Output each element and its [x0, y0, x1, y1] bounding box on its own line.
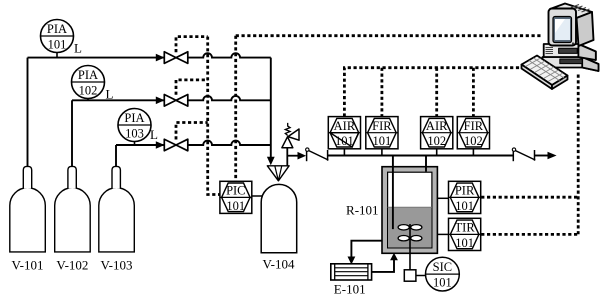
signal bus 1 vertical to PIC-101 left: [208, 37, 220, 195]
wire E-101 back to reactor: [372, 259, 394, 272]
AIR-102 stem down: [436, 149, 438, 156]
stirrer motor box: [404, 270, 416, 281]
svg-text:101: 101: [335, 134, 354, 148]
FIR-102 signal stem: [472, 68, 475, 117]
wire reactor to PIR-101: [437, 197, 448, 199]
signal dashed loop over valve 1: [176, 37, 208, 53]
wire relief stub: [286, 148, 288, 166]
wire riser V-103: [115, 145, 117, 166]
valve 3: [164, 139, 188, 151]
computer case: [544, 44, 596, 60]
svg-text:PIR: PIR: [455, 184, 475, 198]
instrument PIA-101: [41, 20, 74, 58]
reactor liquid: [388, 207, 431, 247]
relief valve PSV: [282, 123, 299, 148]
feed arrow into funnel: [267, 157, 275, 166]
wire line 1 from V-101: [28, 53, 271, 57]
gas cylinder V-102: [55, 188, 90, 252]
wire riser V-102: [71, 100, 73, 166]
svg-text:AIR: AIR: [426, 119, 448, 133]
svg-text:TIR: TIR: [455, 221, 476, 235]
AIR-102 signal stem: [435, 68, 438, 117]
gas cylinder V-101: [10, 188, 46, 252]
top signal bus to computer: [236, 34, 543, 37]
svg-text:PIA: PIA: [78, 68, 98, 82]
monitor right face: [577, 12, 594, 46]
analyzer signal bus to keyboard: [344, 68, 522, 117]
svg-text:L: L: [74, 41, 82, 56]
TIR-101 output signal: [481, 233, 578, 236]
instrument PIC-101: [220, 181, 252, 213]
stirrer shaft: [409, 224, 411, 271]
FIR-101 signal stem: [380, 68, 383, 117]
svg-text:V-102: V-102: [56, 258, 88, 273]
instrument PIA-102: [72, 66, 105, 101]
PIR-101 output signal: [481, 196, 578, 199]
FIR-102 stem down: [472, 149, 474, 156]
FIR-101 stem down: [381, 149, 383, 156]
keyboard: [522, 56, 568, 86]
svg-text:101: 101: [226, 199, 245, 213]
monitor top face: [550, 4, 592, 19]
switch 2 (vent): [512, 148, 556, 161]
instrument AIR-101: [328, 117, 360, 149]
wire riser V-101: [27, 58, 29, 167]
svg-text:FIR: FIR: [464, 119, 484, 133]
wire headspace feed into reactor: [425, 156, 427, 172]
instrument PIR-101: [449, 181, 481, 213]
wire motor to SIC-101: [416, 275, 426, 277]
wire joiner down to V-104 funnel: [270, 58, 272, 159]
switch 1 (sample point): [306, 148, 329, 161]
instrument SIC-101: [426, 257, 460, 291]
wire vent branch: [287, 155, 298, 157]
svg-text:102: 102: [79, 84, 98, 98]
instrument TIR-101: [449, 218, 481, 250]
signal dashed loop over valve 2: [176, 80, 208, 95]
svg-text:PIA: PIA: [47, 22, 67, 36]
monitor screen: [553, 17, 572, 43]
svg-text:101: 101: [433, 276, 452, 290]
svg-text:101: 101: [48, 38, 67, 52]
instrument FIR-101: [366, 117, 398, 149]
svg-text:101: 101: [455, 236, 474, 250]
svg-text:V-101: V-101: [11, 258, 43, 273]
svg-text:AIR: AIR: [334, 119, 356, 133]
svg-text:101: 101: [373, 134, 392, 148]
arrow into reactor bottom: [390, 253, 398, 260]
svg-text:L: L: [150, 127, 158, 142]
flow arrow line 1: [156, 54, 165, 62]
right signal riser from computer: [577, 75, 580, 235]
stirrer impeller upper: [398, 225, 409, 230]
instrument FIR-102: [457, 117, 489, 149]
arrow vent branch: [298, 152, 307, 160]
svg-text:FIR: FIR: [372, 119, 392, 133]
svg-text:103: 103: [125, 127, 144, 141]
arrow into E-101: [348, 257, 356, 265]
instrument AIR-102: [421, 117, 453, 149]
svg-text:SIC: SIC: [433, 260, 452, 274]
signal dashed loop over valve 3: [176, 123, 208, 140]
svg-text:PIC: PIC: [226, 184, 245, 198]
stirrer impeller lower: [398, 236, 409, 241]
reactor R-101 inner vessel: [388, 172, 432, 248]
svg-text:L: L: [106, 87, 114, 102]
instrument PIA-103: [118, 109, 151, 146]
monitor front face: [549, 9, 577, 46]
flow arrow line 3: [156, 141, 165, 149]
svg-text:102: 102: [464, 134, 483, 148]
wire analyzer header: [328, 155, 514, 157]
wire line 2 from V-102: [72, 96, 271, 100]
wire PIC-101 to V-104: [252, 195, 264, 197]
gas cylinder V-103: [99, 188, 135, 252]
wire line 3 from V-103: [116, 141, 271, 145]
svg-text:102: 102: [427, 134, 446, 148]
svg-text:V-103: V-103: [100, 258, 132, 273]
AIR-101 stem down: [343, 149, 345, 156]
svg-text:V-104: V-104: [262, 257, 295, 272]
svg-text:PIA: PIA: [124, 111, 144, 125]
svg-text:E-101: E-101: [334, 282, 366, 297]
valve 2: [164, 95, 188, 107]
heat exchanger E-101: [331, 264, 372, 280]
svg-text:101: 101: [455, 199, 474, 213]
wire reactor to E-101: [351, 241, 382, 259]
vessel V-104: [261, 184, 297, 252]
reactor R-101 jacket: [382, 167, 437, 254]
computer case base slab: [543, 57, 599, 71]
wire dip tube into reactor: [392, 156, 394, 230]
svg-text:R-101: R-101: [346, 203, 379, 218]
wire reactor to TIR-101: [437, 233, 448, 235]
flow arrow line 2: [156, 97, 165, 105]
computer workstation: [522, 4, 599, 90]
funnel on V-104: [267, 166, 289, 181]
signal bus 2 vertical from PIC-101 top: [234, 36, 237, 182]
valve 1: [164, 52, 188, 64]
